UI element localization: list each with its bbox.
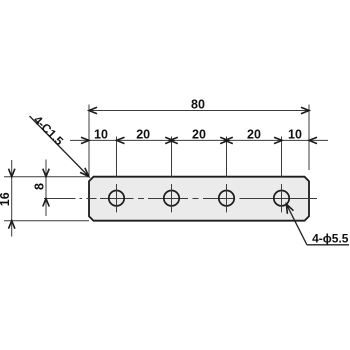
svg-text:4-ϕ5.5: 4-ϕ5.5 [312, 232, 349, 246]
svg-text:20: 20 [192, 127, 206, 141]
hole 4 (phi 5.5) [274, 184, 289, 212]
dimension 80 (overall length) [89, 98, 309, 114]
hole 1 (phi 5.5) [109, 184, 124, 212]
dimension 16 (plate width) [0, 160, 15, 237]
centerline (dash-dot chain line) [44, 198, 317, 200]
extension line hole 3 [226, 137, 228, 177]
svg-text:80: 80 [191, 98, 205, 112]
dimension text 10 (first) [94, 127, 108, 141]
dimension text 20 (third) [247, 127, 261, 141]
dimension text 20 (second) [192, 127, 206, 141]
svg-text:16: 16 [0, 192, 12, 206]
dimension 8 (hole center offset) [33, 160, 50, 217]
dimension text 10 (second) [288, 127, 302, 141]
hole 2 (phi 5.5) [164, 184, 179, 212]
svg-text:8: 8 [33, 183, 47, 190]
extension line hole 4 [281, 137, 283, 177]
extension line bottom (plate bottom edge, horizontal, left side) [4, 220, 89, 222]
extension line hole 2 [171, 137, 173, 177]
svg-text:10: 10 [288, 127, 302, 141]
svg-text:20: 20 [136, 127, 150, 141]
dimension row 10/20/20/20/10 line [70, 137, 328, 143]
leader 4-C1.5 (chamfer callout) [30, 113, 89, 177]
svg-text:10: 10 [94, 127, 108, 141]
extension line top (plate top edge, horizontal, left side) [4, 176, 89, 178]
dimension text 20 (first) [136, 127, 150, 141]
svg-text:4-C1.5: 4-C1.5 [31, 113, 67, 149]
hole 3 (phi 5.5) [219, 184, 234, 212]
svg-text:20: 20 [247, 127, 261, 141]
extension line right (plate right edge, vertical) [308, 105, 310, 171]
leader 4-phi5.5 (hole callout) [286, 204, 349, 245]
extension line left (plate left edge, vertical) [88, 105, 90, 177]
plate body (flat bar with chamfered corners) [89, 177, 309, 221]
extension line hole 1 [116, 137, 118, 177]
